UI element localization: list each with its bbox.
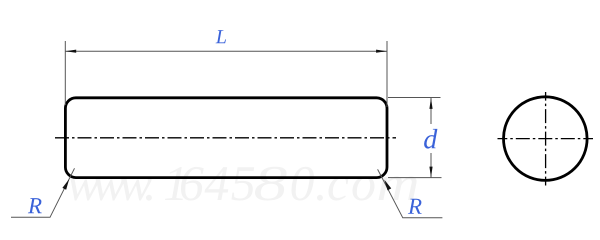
end view circle	[504, 97, 588, 181]
arrow R left	[62, 179, 69, 190]
extension line L right	[386, 41, 388, 107]
extension line d top	[388, 97, 441, 99]
dimension line d lower segment	[430, 153, 432, 178]
extension line L left	[64, 41, 66, 105]
arrow L right	[376, 50, 387, 53]
watermark www.164580.com	[68, 167, 417, 201]
circle vertical centerline	[545, 92, 547, 186]
arrow d down	[429, 167, 432, 178]
leader R left	[11, 168, 75, 217]
label R right	[408, 199, 422, 214]
pin body outline	[65, 98, 387, 178]
dimension line d upper segment	[430, 98, 432, 124]
label R left	[28, 198, 42, 213]
leader R right	[378, 169, 443, 218]
label L	[216, 30, 226, 43]
arrow d up	[429, 98, 432, 109]
circle horizontal centerline	[498, 138, 594, 140]
centerline main view	[55, 137, 396, 139]
label d	[424, 129, 437, 149]
dimension line L	[65, 50, 387, 52]
arrow R right	[384, 180, 391, 191]
arrow L left	[65, 50, 76, 53]
extension line d bottom	[388, 177, 442, 179]
